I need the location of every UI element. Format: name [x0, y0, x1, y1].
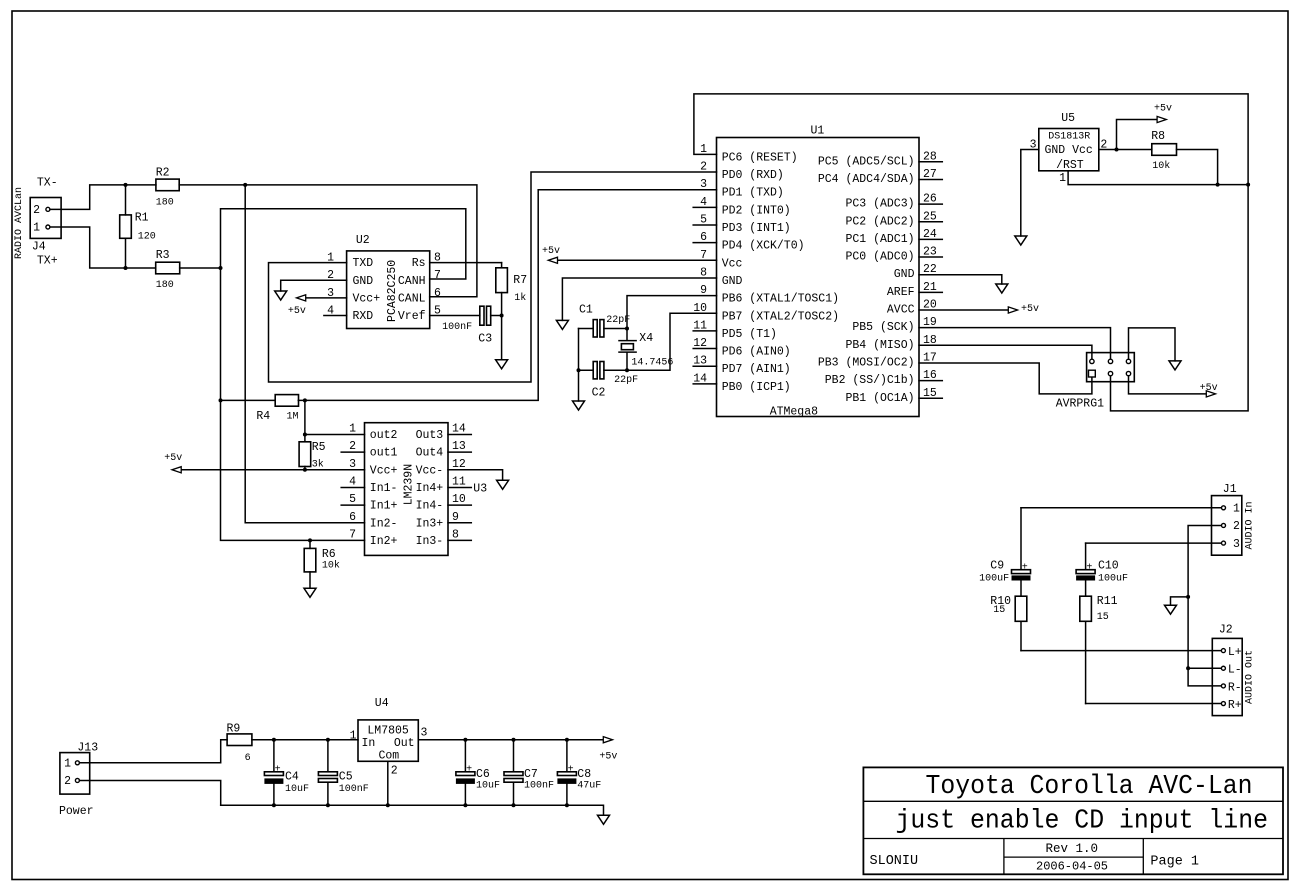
svg-text:In4-: In4-: [416, 500, 444, 513]
svg-text:+5v: +5v: [1021, 304, 1039, 315]
svg-text:R4: R4: [256, 410, 270, 423]
svg-text:2: 2: [349, 440, 356, 453]
svg-text:U2: U2: [356, 234, 370, 247]
svg-text:AVCC: AVCC: [887, 304, 915, 317]
resistor R6: [304, 540, 316, 588]
resistor R10: [1015, 596, 1027, 650]
svg-text:PD4 (XCK/T0): PD4 (XCK/T0): [722, 240, 805, 253]
svg-text:11: 11: [452, 476, 466, 489]
ground U5: [1015, 236, 1027, 245]
svg-text:10k: 10k: [1152, 160, 1170, 172]
svg-text:out2: out2: [370, 429, 398, 442]
svg-text:TX-: TX-: [37, 177, 58, 190]
wire J2 L-: [1188, 667, 1221, 669]
wire J4 pin2 to TX- rail: [50, 185, 126, 209]
svg-text:22pF: 22pF: [606, 315, 630, 326]
wire U1 MISO pin18 to AVRPRG: [919, 345, 1092, 359]
wire U2 Rs to R7: [430, 262, 502, 264]
supply +5v U5: [1117, 104, 1173, 150]
connector J1: [1212, 496, 1242, 556]
wire R11 to J2 R+: [1086, 703, 1222, 705]
svg-text:100nF: 100nF: [339, 784, 369, 795]
svg-text:PC1 (ADC1): PC1 (ADC1): [845, 233, 914, 246]
U2 pin numbers 1-4: [327, 252, 334, 318]
svg-text:12: 12: [452, 458, 466, 471]
junction C7 bottom: [512, 803, 516, 807]
supply +5v PSU: [599, 737, 617, 763]
svg-text:PD3 (INT1): PD3 (INT1): [722, 222, 791, 235]
wire U1 XTAL2 pin10: [627, 313, 717, 370]
wire U3 out2 to R5: [305, 434, 365, 436]
svg-text:LM7805: LM7805: [367, 725, 409, 738]
svg-text:14: 14: [452, 423, 466, 436]
svg-text:1: 1: [64, 758, 71, 771]
wire C1 C2 left to ground: [578, 329, 580, 402]
svg-text:PC2 (ADC2): PC2 (ADC2): [845, 215, 914, 228]
capacitor C7: [504, 740, 523, 806]
svg-text:R+: R+: [1228, 699, 1242, 712]
wire R10 to J2 L+: [1021, 650, 1221, 652]
svg-text:+: +: [275, 764, 281, 775]
svg-text:Page 1: Page 1: [1150, 855, 1199, 870]
svg-text:In3+: In3+: [416, 517, 444, 530]
svg-text:6: 6: [349, 511, 356, 524]
svg-text:J1: J1: [1223, 483, 1237, 496]
resistor R8: [1117, 144, 1218, 185]
junction C4 top: [272, 738, 276, 742]
svg-text:ATMega8: ATMega8: [770, 406, 818, 419]
svg-text:PB4 (MISO): PB4 (MISO): [845, 339, 914, 352]
svg-text:U4: U4: [375, 697, 389, 710]
svg-text:PD0 (RXD): PD0 (RXD): [722, 169, 784, 182]
U2 right pin names: [398, 257, 426, 323]
wire J13 pin1 to R9: [80, 740, 228, 763]
svg-text:+: +: [466, 764, 472, 775]
svg-text:CANH: CANH: [398, 275, 426, 288]
svg-text:AUDIO Out: AUDIO Out: [1245, 650, 1256, 704]
op-amp U3 LM239N box: [365, 423, 449, 556]
svg-text:6: 6: [245, 753, 251, 764]
junction J2 L-: [1186, 666, 1190, 670]
svg-text:Out3: Out3: [416, 429, 444, 442]
svg-text:3: 3: [421, 727, 428, 740]
connector J13: [60, 753, 90, 795]
svg-text:2: 2: [700, 161, 707, 174]
wire TX+ net to CANH and In2+: [221, 209, 466, 541]
svg-text:R11: R11: [1097, 595, 1118, 608]
svg-text:GND Vcc: GND Vcc: [1045, 144, 1093, 157]
svg-text:In1+: In1+: [370, 500, 398, 513]
junction C6 bottom: [463, 803, 467, 807]
U1 right pin names: [818, 155, 915, 404]
svg-text:Out4: Out4: [416, 447, 444, 460]
svg-text:3k: 3k: [312, 459, 324, 471]
svg-text:100nF: 100nF: [524, 781, 554, 792]
wire AVRPRG gnd bracket: [1129, 328, 1176, 361]
wire U1 MOSI pin17 to AVRPRG: [919, 363, 1092, 394]
U3 pin numbers 14-8: [452, 423, 466, 542]
supply +5v U2 Vcc+: [288, 295, 347, 317]
svg-text:U3: U3: [473, 483, 487, 496]
capacitor C6: [456, 740, 475, 806]
svg-text:PD2 (INT0): PD2 (INT0): [722, 204, 791, 217]
op-amp U1 ATMega8 box: [717, 138, 920, 417]
svg-text:3: 3: [700, 178, 707, 191]
wire U5 /RST pin1: [1068, 171, 1248, 185]
svg-text:1: 1: [1059, 172, 1066, 185]
svg-text:In: In: [362, 737, 376, 750]
svg-text:100nF: 100nF: [442, 322, 472, 333]
svg-text:In3-: In3-: [416, 535, 444, 548]
junction R1 top: [124, 183, 128, 187]
wire U1 XTAL1 pin9: [627, 296, 717, 329]
svg-text:Out: Out: [394, 737, 415, 750]
svg-text:PD5 (T1): PD5 (T1): [722, 328, 777, 341]
svg-text:PB5 (SCK): PB5 (SCK): [852, 321, 914, 334]
svg-text:Toyota Corolla AVC-Lan: Toyota Corolla AVC-Lan: [926, 772, 1253, 802]
svg-text:U1: U1: [811, 125, 825, 138]
svg-text:C8: C8: [577, 768, 591, 781]
svg-text:GND: GND: [353, 275, 374, 288]
svg-text:In4+: In4+: [416, 482, 444, 495]
resistor R3: [126, 262, 221, 274]
svg-text:In2-: In2-: [370, 517, 398, 530]
junction U5 Vcc: [1115, 148, 1119, 152]
svg-text:out1: out1: [370, 447, 398, 460]
svg-text:10uF: 10uF: [285, 784, 309, 795]
resistor R7: [496, 263, 508, 360]
svg-text:PC6 (RESET): PC6 (RESET): [722, 151, 798, 164]
svg-text:7: 7: [349, 528, 356, 541]
wire RESET net pin1 to AVRPRG and R8: [694, 94, 1248, 411]
svg-text:U5: U5: [1061, 112, 1075, 125]
svg-text:100uF: 100uF: [1098, 574, 1128, 585]
svg-text:R2: R2: [156, 167, 170, 180]
svg-text:180: 180: [156, 280, 174, 291]
junction TX- vertical: [243, 183, 247, 187]
wire J4 pin1 to TX+ rail: [50, 227, 126, 268]
svg-text:+: +: [568, 764, 574, 775]
svg-text:PC3 (ADC3): PC3 (ADC3): [845, 198, 914, 211]
U3 left stubs pins 2 4 5: [341, 452, 364, 505]
svg-text:3: 3: [349, 458, 356, 471]
svg-text:15: 15: [1097, 612, 1109, 623]
svg-text:120: 120: [138, 232, 156, 243]
wire U4 out rail: [418, 739, 603, 741]
svg-text:C3: C3: [478, 332, 492, 345]
supply +5v U1 AVCC pin20: [919, 304, 1039, 315]
svg-text:100uF: 100uF: [979, 574, 1009, 585]
svg-text:PB7 (XTAL2/TOSC2): PB7 (XTAL2/TOSC2): [722, 310, 839, 323]
svg-text:9: 9: [452, 511, 459, 524]
resistor R4: [221, 395, 305, 407]
svg-text:+5v: +5v: [1154, 104, 1172, 115]
svg-text:15: 15: [993, 605, 1005, 616]
svg-text:8: 8: [452, 528, 459, 541]
wire C10 to J1 pin3: [1086, 542, 1222, 544]
svg-text:C1: C1: [579, 304, 593, 317]
capacitor C3: [480, 306, 502, 325]
svg-text:Vcc+: Vcc+: [370, 464, 398, 477]
junction out2: [303, 433, 307, 437]
svg-text:+5v: +5v: [164, 453, 182, 464]
svg-text:PC5 (ADC5/SCL): PC5 (ADC5/SCL): [818, 155, 915, 168]
svg-text:R8: R8: [1151, 130, 1165, 143]
svg-text:10k: 10k: [322, 559, 340, 571]
U3 right pin names: [416, 429, 444, 548]
supply +5v U1 Vcc pin7: [542, 246, 717, 263]
junction R1 bottom: [124, 266, 128, 270]
wire C9 to J1 pin1: [1021, 507, 1222, 509]
svg-text:13: 13: [452, 440, 466, 453]
svg-text:PC4 (ADC4/SDA): PC4 (ADC4/SDA): [818, 173, 915, 186]
svg-text:PB2 (SS/)C1b): PB2 (SS/)C1b): [825, 374, 915, 387]
svg-text:AUDIO In: AUDIO In: [1245, 501, 1256, 549]
junction C7 top: [512, 738, 516, 742]
wire U2 GND pin2: [281, 280, 347, 291]
ground R6: [304, 588, 316, 597]
svg-text:1: 1: [33, 222, 40, 235]
junction C8 bottom: [565, 803, 569, 807]
svg-text:2: 2: [64, 775, 71, 788]
svg-text:RXD: RXD: [353, 310, 374, 323]
supply +5v U3 Vcc+: [164, 453, 364, 473]
svg-text:14.7456: 14.7456: [631, 357, 673, 368]
ground C1 C2: [573, 401, 585, 410]
svg-text:RADIO AVCLan: RADIO AVCLan: [14, 187, 25, 259]
wire bottom rail: [221, 805, 604, 815]
svg-text:AVRPRG1: AVRPRG1: [1056, 398, 1104, 411]
title block frame: [863, 767, 1283, 874]
svg-text:2: 2: [33, 204, 40, 217]
svg-text:7: 7: [434, 269, 441, 282]
svg-text:5: 5: [349, 493, 356, 506]
capacitor C4: [264, 740, 283, 806]
svg-text:180: 180: [156, 198, 174, 209]
U1 left pin names: [722, 151, 839, 394]
connector J2: [1212, 638, 1242, 715]
svg-text:R9: R9: [227, 723, 241, 736]
junction R4 right: [303, 398, 307, 402]
svg-text:2006-04-05: 2006-04-05: [1036, 860, 1108, 874]
svg-text:22pF: 22pF: [614, 375, 638, 386]
wire U5 GND pin3: [1021, 150, 1039, 237]
wire J13 pin2 to bottom rail: [80, 780, 221, 805]
resistor R11: [1080, 596, 1092, 703]
svg-text:J2: J2: [1219, 624, 1233, 637]
resistor R2: [126, 179, 246, 191]
capacitor C5: [318, 740, 337, 806]
junction audio gnd: [1186, 595, 1190, 599]
U2 RXD stub: [324, 315, 347, 317]
svg-text:R3: R3: [156, 249, 170, 262]
junction RESET vertical: [1246, 183, 1250, 187]
wire gnd stub audio: [1171, 597, 1189, 605]
wire U2 TXD to U1 PD0: [269, 172, 717, 382]
svg-text:C7: C7: [524, 768, 538, 781]
supply +5v AVRPRG: [1129, 376, 1218, 397]
svg-text:3: 3: [1233, 538, 1240, 551]
svg-text:X4: X4: [639, 332, 653, 345]
svg-text:C2: C2: [592, 387, 606, 400]
svg-text:Com: Com: [379, 750, 400, 763]
junction R6 top: [308, 538, 312, 542]
svg-text:R6: R6: [322, 548, 336, 561]
resistor R5: [299, 400, 311, 469]
svg-text:Power: Power: [59, 805, 94, 818]
resistor R9: [227, 734, 358, 746]
U3 left pin names: [370, 429, 398, 548]
svg-text:Rev 1.0: Rev 1.0: [1046, 842, 1099, 856]
wire U2 Vref to C3: [430, 315, 480, 317]
svg-text:2: 2: [391, 765, 398, 778]
ground R7/C3: [496, 360, 508, 369]
svg-text:PB3 (MOSI/OC2): PB3 (MOSI/OC2): [818, 357, 915, 370]
svg-text:R7: R7: [513, 274, 527, 287]
wire J1 pin2 to gnd and J2: [1188, 525, 1221, 685]
svg-text:/RST: /RST: [1056, 159, 1084, 172]
junction C6 top: [463, 738, 467, 742]
junction Com bottom: [386, 803, 390, 807]
junction C4 bottom: [272, 803, 276, 807]
svg-text:1M: 1M: [287, 411, 299, 422]
junction C2 left: [577, 368, 581, 372]
svg-text:C5: C5: [339, 771, 353, 784]
svg-text:10uF: 10uF: [476, 781, 500, 792]
svg-text:CANL: CANL: [398, 292, 426, 305]
junction C3/R7: [500, 314, 504, 318]
capacitor C9: [1012, 508, 1031, 596]
junction R8 right: [1216, 183, 1220, 187]
svg-text:Vcc: Vcc: [722, 257, 743, 270]
svg-text:Rs: Rs: [412, 257, 426, 270]
U3 pin numbers 1-7: [349, 423, 356, 542]
svg-text:C10: C10: [1098, 560, 1119, 573]
svg-text:+5v: +5v: [1200, 383, 1218, 394]
svg-text:4: 4: [349, 476, 356, 489]
junction C8 top: [565, 738, 569, 742]
svg-text:6: 6: [434, 287, 441, 300]
svg-text:Vcc-: Vcc-: [416, 464, 444, 477]
svg-text:PC0 (ADC0): PC0 (ADC0): [845, 251, 914, 264]
svg-text:PD7 (AIN1): PD7 (AIN1): [722, 363, 791, 376]
svg-text:1: 1: [350, 730, 357, 743]
junction XTAL1/C1: [625, 327, 629, 331]
op-amp U2 PCA82C250 box: [347, 251, 430, 329]
IC U4 LM7805 box: [358, 720, 418, 761]
junction R3 to TX+ vertical: [219, 266, 223, 270]
capacitor C1: [579, 320, 628, 337]
ground U3 Vcc-: [497, 480, 509, 489]
svg-text:L+: L+: [1228, 646, 1242, 659]
U1 left stubs pins 4 5 6 11 12 13 14: [693, 207, 716, 384]
svg-text:1: 1: [1233, 503, 1240, 516]
svg-text:C6: C6: [476, 768, 490, 781]
capacitor C8: [557, 740, 576, 806]
wire TX- net to CANL and In2-: [245, 185, 477, 523]
wire U5 Vcc pin2: [1099, 149, 1117, 151]
junction C5 bottom: [326, 803, 330, 807]
svg-text:GND: GND: [894, 268, 915, 281]
junction R5 bottom: [303, 468, 307, 472]
svg-text:PB0 (ICP1): PB0 (ICP1): [722, 381, 791, 394]
U1 pin numbers 1-14: [693, 143, 707, 386]
svg-text:C4: C4: [285, 771, 299, 784]
svg-text:L-: L-: [1228, 664, 1242, 677]
connector AVRPRG1: [1087, 353, 1135, 382]
U1 right stubs pins 28 27 26 25 24 23 21 16 15: [919, 162, 942, 398]
svg-text:GND: GND: [722, 275, 743, 288]
svg-text:R5: R5: [312, 441, 326, 454]
svg-text:PD6 (AIN0): PD6 (AIN0): [722, 346, 791, 359]
svg-text:LM239N: LM239N: [403, 464, 416, 505]
junction XTAL2/C2: [625, 368, 629, 372]
svg-text:+5v: +5v: [542, 246, 560, 257]
svg-text:PB1 (OC1A): PB1 (OC1A): [845, 392, 914, 405]
capacitor C10: [1076, 543, 1095, 596]
svg-text:R-: R-: [1228, 681, 1242, 694]
svg-text:+5v: +5v: [599, 752, 617, 763]
svg-text:J13: J13: [77, 741, 98, 754]
wire U1 SCK pin19 to AVRPRG: [919, 328, 1111, 360]
wire R4 to U1 PD1: [305, 190, 717, 401]
wire U4 Com to rail: [387, 761, 389, 805]
U3 right stubs pins 14 13 11 10 9 8: [448, 435, 471, 541]
U2 pin numbers 8-5: [434, 252, 441, 318]
U1 pin numbers 28-15: [923, 150, 937, 399]
svg-text:2: 2: [1233, 520, 1240, 533]
capacitor C2: [579, 362, 628, 379]
junction R4 left: [219, 398, 223, 402]
svg-text:In2+: In2+: [370, 535, 398, 548]
wire U3 Vcc- to ground: [448, 470, 503, 481]
svg-text:1: 1: [349, 423, 356, 436]
svg-text:+: +: [1086, 562, 1092, 573]
svg-text:C9: C9: [990, 560, 1004, 573]
svg-text:SLONIU: SLONIU: [870, 854, 919, 869]
junction C5 top: [326, 738, 330, 742]
svg-text:J4: J4: [32, 241, 46, 254]
svg-text:PB6 (XTAL1/TOSC1): PB6 (XTAL1/TOSC1): [722, 293, 839, 306]
crystal X4: [619, 329, 636, 371]
connector J4: [30, 198, 61, 239]
svg-text:10: 10: [452, 493, 466, 506]
svg-text:R1: R1: [135, 212, 149, 225]
ground PSU: [598, 815, 610, 824]
svg-text:+5v: +5v: [288, 306, 306, 317]
svg-text:1k: 1k: [514, 292, 526, 304]
svg-text:AREF: AREF: [887, 286, 915, 299]
ground U1 pin22: [996, 284, 1008, 293]
svg-text:In1-: In1-: [370, 482, 398, 495]
svg-text:Vref: Vref: [398, 310, 426, 323]
svg-text:Vcc+: Vcc+: [353, 292, 381, 305]
ground AVRPRG: [1169, 361, 1181, 370]
wire U1 GND pin8: [562, 278, 716, 320]
svg-text:TX+: TX+: [37, 255, 58, 268]
ground audio: [1165, 605, 1177, 614]
ground U2: [275, 291, 287, 300]
svg-text:just enable CD input line: just enable CD input line: [896, 807, 1269, 837]
svg-text:47uF: 47uF: [577, 781, 601, 792]
svg-text:DS1813R: DS1813R: [1048, 132, 1090, 143]
svg-text:TXD: TXD: [353, 257, 374, 270]
IC U5 DS1813R box: [1039, 129, 1099, 171]
svg-text:PD1 (TXD): PD1 (TXD): [722, 187, 784, 200]
U2 left pin names: [353, 257, 381, 323]
ground U1 pin8: [556, 320, 568, 329]
wire U1 GND pin22: [919, 275, 1002, 284]
